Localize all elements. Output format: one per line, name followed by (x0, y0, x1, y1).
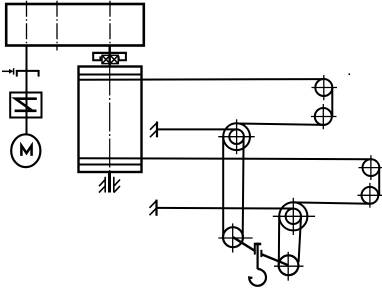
pulley block B crosshair (273, 198, 315, 235)
upper right pulley 1 (315, 79, 332, 96)
drum shaft between gearbox and drum (108, 46, 110, 67)
left fall rope from block B to hook pulley R (278, 216, 280, 265)
drum lower rim line (79, 164, 142, 166)
pulley block A inner sheave (229, 129, 244, 144)
stray dot (348, 73, 350, 75)
gearbox housing (6, 4, 144, 46)
shaft centerline I (motor shaft) inside gearbox (26, 1, 28, 46)
motor shaft below gearbox (26, 46, 28, 135)
lower anchor rope to pulley block B (157, 207, 295, 210)
rope between lower right pulleys (378, 168, 380, 196)
drum brake pulley box with cross hatch (102, 55, 118, 63)
drum lower shaft stub (108, 172, 111, 193)
shaft centerline II (intermediate) (56, 1, 58, 51)
lower anchor post (150, 200, 157, 216)
pulley block A crosshair (218, 119, 254, 154)
hook side plate right (260, 250, 262, 257)
shaft centerline III (drum shaft) inside gearbox (109, 1, 111, 46)
hook bowl (249, 269, 266, 286)
lower right pulley 2 (362, 187, 379, 204)
coupling actuation arrow (2, 68, 14, 74)
hook pulley L (223, 227, 243, 247)
right fall rope from block B to hook pulley R (299, 217, 301, 262)
brake / safety coupling box (10, 93, 41, 118)
top rope from drum to upper right block (79, 78, 325, 81)
rope between upper right pulleys (331, 88, 333, 117)
lower right pulley 1 (363, 159, 380, 176)
drum brake left shoe (93, 53, 100, 60)
hook pulley R (279, 255, 299, 275)
drum brake right shoe (119, 53, 126, 60)
upper anchor rope to pulley block A (157, 128, 237, 130)
rope from block B to lower right pulleys (293, 202, 370, 203)
pulley block B outer sheave (279, 202, 307, 230)
hook traverse beam left segment (233, 237, 254, 250)
drum brake crossbar (92, 52, 127, 54)
left fall rope from block A to hook pulley L (222, 137, 224, 237)
pulley block B inner sheave (286, 209, 301, 224)
hook side plate left (254, 245, 256, 255)
rope from block A to upper right pulleys (237, 124, 324, 125)
rope drum body (79, 67, 142, 173)
drum bottom bearing support (99, 177, 120, 193)
upper right pulley 2 (315, 108, 332, 125)
pulley block A outer sheave (223, 123, 250, 150)
drum upper rim line (79, 74, 142, 76)
drum centerline (109, 67, 111, 173)
brake box zigzag symbol (15, 99, 37, 111)
upper anchor post (150, 122, 157, 138)
motor M (11, 134, 40, 167)
bottom rope from drum to lower right block (79, 158, 372, 159)
coupling (clutch) bracket (16, 70, 40, 77)
right fall rope from block A to hook pulley L (242, 137, 245, 237)
hook shank (257, 243, 259, 270)
hook traverse beam right segment (261, 254, 289, 265)
hook nut cap (254, 243, 261, 246)
